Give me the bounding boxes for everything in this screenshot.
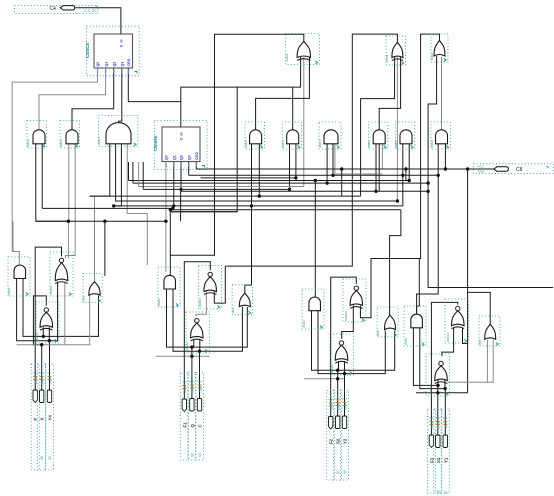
svg-text:XNOR2: XNOR2 <box>446 332 450 342</box>
wire g4 c4 inA gray <box>486 340 488 382</box>
selection box C1 <box>83 273 102 302</box>
wire rail 128.5 down <box>128 162 130 181</box>
wire g3 line370 <box>312 311 395 370</box>
selection box T3 <box>431 34 448 62</box>
wire M8 in b <box>381 144 383 169</box>
wire g1 b1 out to flag1 <box>35 247 61 389</box>
svg-text:S7: S7 <box>444 490 448 494</box>
and gate M8 <box>373 130 385 144</box>
wire U2 p2 down <box>173 162 175 206</box>
xnor gate B2 <box>208 272 212 276</box>
wire g2 b2 inR up <box>214 266 225 303</box>
svg-text:Q1: Q1 <box>104 62 108 67</box>
wire net C4 to U1 clock <box>76 8 121 34</box>
svg-text:OBUF: OBUF <box>183 385 187 393</box>
svg-text:OBUF: OBUF <box>444 421 448 429</box>
wire stub 405 <box>405 169 407 181</box>
svg-text:AND2: AND2 <box>244 140 248 148</box>
svg-text:S3: S3 <box>198 453 202 457</box>
wire g3 b3 out to flag1 <box>331 277 357 416</box>
svg-text:OR2: OR2 <box>376 330 380 336</box>
svg-text:Q0: Q0 <box>96 62 100 67</box>
svg-text:S0: S0 <box>40 456 44 460</box>
wire bus L3 y178 <box>201 177 296 179</box>
svg-text:XOR2: XOR2 <box>385 54 389 63</box>
wire g3 d3 in a <box>338 361 340 370</box>
wire g2 flag3 wire <box>199 351 201 399</box>
wire g3 line373 <box>318 311 385 374</box>
output terminal G2.2 <box>197 399 201 412</box>
svg-text:CEO: CEO <box>195 152 199 160</box>
wire M3 in 4 <box>127 144 147 214</box>
wire bus L12 y208 <box>42 207 173 209</box>
svg-text:Q3: Q3 <box>187 155 191 160</box>
wire M9 in b <box>408 144 410 181</box>
wire T2 input a <box>361 57 395 196</box>
wire g1 d1 out <box>33 296 46 345</box>
wire M6 in b <box>295 144 297 178</box>
output terminal G3.1 <box>336 416 340 429</box>
xnor gate B1 <box>59 258 63 262</box>
wire bus L13 y209 <box>170 209 401 211</box>
or gate T3 <box>434 41 445 57</box>
svg-text:S2: S2 <box>190 453 194 457</box>
wire bus L8 y191 <box>181 190 429 192</box>
junction dots <box>67 220 70 223</box>
selection box input C4 <box>15 6 99 14</box>
or gate C2 <box>239 293 250 307</box>
corner mark U1 <box>135 72 138 74</box>
svg-text:Q1: Q1 <box>173 155 177 160</box>
svg-text:C: C <box>198 424 203 428</box>
svg-text:OBUF: OBUF <box>337 402 341 410</box>
wire g4 b4 inL from D4 <box>442 328 454 356</box>
selection box T2 <box>386 36 406 65</box>
wire T3 input b to M10 <box>441 57 443 130</box>
and gate M1 <box>33 130 45 144</box>
wire g4 d4 in a <box>437 374 439 385</box>
or gate C1 <box>89 282 100 296</box>
xnor gate D4 <box>439 361 443 365</box>
wire M10 in a <box>437 144 439 176</box>
wire U2 p1 down <box>165 162 167 273</box>
selection box D2 <box>186 312 210 353</box>
wire g3 flag3 wire <box>344 374 346 417</box>
selection box B2 <box>199 266 222 310</box>
xnor gate D1 <box>44 308 48 312</box>
counter U1 CB4CE <box>94 34 133 68</box>
svg-text:Q2: Q2 <box>112 62 116 67</box>
svg-text:XNOR2: XNOR2 <box>35 332 39 342</box>
wire T2 input mid <box>396 57 398 201</box>
svg-text:Y4: Y4 <box>48 415 53 421</box>
corner mark U2 <box>202 166 205 168</box>
wire net U1-CEO to U2 clock <box>128 68 181 127</box>
svg-text:OBUF: OBUF <box>191 385 195 393</box>
selection column G2.0 <box>180 373 188 460</box>
wire g4 a4 out <box>417 175 439 314</box>
wire g3 d3 in b <box>344 361 346 374</box>
and gate A1 <box>14 265 25 278</box>
wire bus L10 y201 <box>126 200 398 202</box>
wire g1 a1 ins <box>17 279 58 341</box>
wire net T3 cont to A4 <box>417 306 420 314</box>
wire g1 d1 in a <box>42 327 44 336</box>
wire g3 b3 inR from T3 <box>360 259 419 318</box>
svg-text:OBUF: OBUF <box>41 376 45 384</box>
wire bus L9 y196 <box>90 195 361 197</box>
wire M1 in b <box>41 144 43 209</box>
output terminal G3.2 <box>342 416 346 429</box>
wire drop 13 gray <box>12 221 14 251</box>
selection box U2 <box>154 121 207 170</box>
xor gate T1 <box>297 42 310 58</box>
wire net T2 out left-down <box>225 34 397 266</box>
wire M5 in a <box>251 144 253 206</box>
selection box B3 <box>343 279 366 322</box>
wire g2 flag2 wire <box>191 347 193 399</box>
svg-text:Y1: Y1 <box>443 457 448 463</box>
wire net U1-Q1 to AND M1 <box>39 68 106 130</box>
selection box D3 <box>330 334 354 375</box>
wire g4 c4 branch <box>468 292 491 324</box>
wire M2 in b <box>66 144 76 259</box>
svg-text:AND2: AND2 <box>157 298 161 306</box>
wire g2 line347 <box>167 289 248 347</box>
svg-text:X1: X1 <box>436 457 441 463</box>
wire rail 132.9 down <box>132 162 134 183</box>
selection column G3.2 <box>341 390 349 480</box>
wire drop 104.9 <box>104 221 106 276</box>
svg-text:OR2: OR2 <box>82 295 86 301</box>
corner mark C4box <box>96 6 98 8</box>
svg-text:VCC: VCC <box>478 165 485 169</box>
xnor gate D3 <box>339 341 343 345</box>
wire g2 b2 out to flag1 <box>184 262 210 399</box>
wire g1 d1 in b <box>48 327 50 341</box>
wire M3 in 3 <box>114 144 122 206</box>
svg-text:CB4CE: CB4CE <box>85 42 90 58</box>
corner mark C8box <box>547 166 549 168</box>
svg-text:AND2: AND2 <box>430 140 434 148</box>
svg-text:CEO: CEO <box>127 59 131 67</box>
wire g2 line351 <box>173 289 242 351</box>
svg-text:OBUF: OBUF <box>437 421 441 429</box>
selection box A3 <box>302 289 324 329</box>
svg-text:AND2: AND2 <box>302 320 306 328</box>
wire g2 a2 out up <box>169 212 171 276</box>
wire M7 in c <box>334 144 336 174</box>
selection box output C8 <box>474 164 554 174</box>
wire g4 b4 inR <box>463 328 468 344</box>
wire bus L11 y205 <box>114 205 403 207</box>
svg-text:AND2: AND2 <box>26 139 30 147</box>
wire net U1-Q3 to AND M3 <box>119 68 122 123</box>
wire T2 input b <box>379 57 400 191</box>
output port C8 <box>494 167 509 171</box>
svg-text:XNOR2: XNOR2 <box>185 342 189 352</box>
and gate M6 <box>287 130 299 144</box>
wire bus L3b y174 <box>335 173 383 175</box>
selection box A1 <box>8 257 30 296</box>
wire g1 b1 inR <box>64 282 66 345</box>
wire g2 line356 gray <box>156 355 210 357</box>
svg-text:S1: S1 <box>48 456 52 460</box>
and gate M9 <box>400 130 412 144</box>
selection box M1 <box>27 121 46 148</box>
svg-text:AND3: AND3 <box>318 140 322 148</box>
wire g3 flag2 wire <box>337 370 339 416</box>
input port C4 <box>60 6 75 10</box>
selection column G3.1 <box>334 390 342 480</box>
svg-text:XNOR2: XNOR2 <box>198 298 202 308</box>
wire rail 143.2 down <box>142 162 144 189</box>
output terminal G3.0 <box>329 417 333 430</box>
wire net T3 out left-down <box>419 34 439 306</box>
svg-text:OBUF: OBUF <box>198 385 202 393</box>
and gate A4 <box>411 314 423 328</box>
and gate M3 <box>106 123 131 144</box>
selection box D1 <box>36 302 59 343</box>
wire T3 input a <box>428 56 553 288</box>
and gate M7 <box>324 130 338 144</box>
selection box M8 <box>368 122 387 149</box>
wire g4 rail 467 low <box>467 344 469 393</box>
selection box D4 <box>426 354 450 396</box>
wire g3 c3 feed <box>390 210 401 316</box>
wire g4 line393 <box>416 392 468 394</box>
wire branch at 237 down <box>170 87 237 212</box>
wire stub 341 <box>341 169 343 197</box>
selection column G4.1 <box>434 409 442 493</box>
wire g1 flag2 wire <box>41 345 43 390</box>
or gate T2 <box>392 42 403 57</box>
wire g4 c4 feed <box>467 169 469 344</box>
svg-text:S4: S4 <box>336 470 340 474</box>
svg-text:UP: UP <box>120 39 124 43</box>
wire U2 p3 down <box>180 162 182 190</box>
svg-text:AND2: AND2 <box>281 140 285 148</box>
wire g4 b4 out to flag1 <box>431 302 457 434</box>
svg-text:OBUF: OBUF <box>330 403 334 411</box>
selection box C2 <box>232 285 253 315</box>
wire rail 138.6 down <box>138 162 140 187</box>
svg-text:S2: S2 <box>336 438 341 444</box>
wire bus L1 y169 to flag <box>196 168 494 170</box>
wire drop 68.4 <box>67 221 69 258</box>
wire g4 flag2 wire <box>437 385 439 434</box>
svg-text:X: X <box>40 418 45 421</box>
wire net T1 out left-down <box>170 34 303 255</box>
svg-text:AND2: AND2 <box>404 337 408 345</box>
selection column G1.1 <box>38 364 46 470</box>
svg-text:OBUF: OBUF <box>430 421 434 429</box>
wire g3 a3 rail up <box>314 181 316 298</box>
selection column G1.0 <box>31 364 39 470</box>
svg-text:XOR2: XOR2 <box>285 53 289 62</box>
wire M2 in a <box>68 144 70 221</box>
svg-text:OBUF: OBUF <box>48 376 52 384</box>
wire bus L16 y221 <box>36 220 166 222</box>
svg-text:Q0: Q0 <box>165 155 169 160</box>
svg-text:S6: S6 <box>436 490 440 494</box>
selection box M3 <box>98 116 137 147</box>
wire bus L14 y211 <box>170 211 237 213</box>
selection box M6 <box>282 122 301 149</box>
wire U2 p5 down right <box>195 162 197 170</box>
selection column G4.2 <box>441 409 449 493</box>
wire g2 b2 inL from D2 <box>196 292 206 317</box>
svg-text:Q2: Q2 <box>180 155 184 160</box>
wire bus L4 y180 <box>129 180 410 182</box>
svg-text:XNOR2: XNOR2 <box>344 311 348 321</box>
wire M3 in 2 <box>116 144 126 201</box>
svg-text:CB4RE: CB4RE <box>153 135 158 151</box>
svg-text:OR2: OR2 <box>478 339 482 345</box>
svg-text:XNOR2: XNOR2 <box>330 364 334 374</box>
svg-text:XNOR2: XNOR2 <box>49 285 53 295</box>
svg-text:FRQ: FRQ <box>478 169 485 173</box>
selection box U1 <box>87 26 140 76</box>
svg-text:S5: S5 <box>343 470 347 474</box>
wire M3 in 1 <box>90 144 110 196</box>
svg-text:AND2: AND2 <box>367 140 371 148</box>
xnor gate B3 <box>354 286 358 290</box>
wire g4 horiz 382 gray <box>448 340 494 382</box>
svg-text:Q3: Q3 <box>121 62 125 67</box>
wire rail 89.5 C1 out <box>90 196 95 282</box>
svg-text:AND2: AND2 <box>394 140 398 148</box>
wire bus L6 y186 <box>139 186 304 188</box>
wire bus L2 y175 <box>189 174 439 176</box>
wire g1 horiz 344 gray <box>17 296 90 345</box>
selection column G3.0 <box>327 391 335 481</box>
selection box M10 <box>431 122 450 149</box>
wire M7 in a <box>326 144 328 183</box>
wire rail 180.6 down <box>180 191 182 221</box>
svg-text:UP: UP <box>180 132 184 136</box>
wire net U1-Q2 to AND M2 <box>72 68 114 130</box>
xnor gate D2 <box>195 319 199 323</box>
and gate M2 <box>66 130 78 144</box>
and gate A3 <box>309 297 321 311</box>
wire net U2 top to XOR T1 <box>181 57 301 102</box>
svg-text:C8: C8 <box>516 167 523 173</box>
wire g2 d2 in a <box>193 340 195 347</box>
output terminal G1.1 <box>40 390 44 403</box>
U1 pin numbers <box>97 70 99 74</box>
counter U2 CB4RE <box>162 127 200 162</box>
output terminal G2.0 <box>182 399 186 412</box>
or gate C3 <box>385 315 396 330</box>
wire M1 in a <box>36 144 69 221</box>
xnor gate B4 <box>456 306 460 310</box>
output terminal G4.0 <box>429 435 433 448</box>
wire g1 a1 in2 <box>23 279 99 337</box>
and gate M5 <box>250 130 262 144</box>
svg-text:AND2: AND2 <box>59 139 63 147</box>
output terminal G4.2 <box>443 435 447 448</box>
wire M6 AND out up <box>292 87 294 130</box>
wire g4 line385 <box>413 327 438 385</box>
wire g3 line378 gray <box>304 378 345 380</box>
selection box A4 <box>404 306 426 346</box>
selection box C4g <box>479 316 500 346</box>
svg-text:F1: F1 <box>182 422 187 428</box>
selection column G2.1 <box>188 373 196 461</box>
svg-text:Y2: Y2 <box>343 438 348 444</box>
wire g4 flag3 wire <box>444 389 446 435</box>
wire M6 in a <box>289 144 291 190</box>
output terminal G1.0 <box>33 390 37 403</box>
wire M9 in a <box>402 144 404 206</box>
selection box C3 <box>377 307 398 337</box>
output terminal G2.1 <box>190 399 194 412</box>
selection box T1 <box>286 34 320 65</box>
svg-text:OBUF: OBUF <box>343 402 347 410</box>
wire g1 flag3 wire <box>49 341 51 390</box>
wire U2 p4 down <box>188 162 190 176</box>
selection box M2 <box>60 121 79 148</box>
wire g4 line388 <box>420 327 445 389</box>
selection column G4.0 <box>427 409 435 493</box>
wire g2 c2 feed <box>245 206 252 294</box>
selection box A2 <box>158 267 180 307</box>
svg-text:F2: F2 <box>329 438 334 444</box>
svg-text:Q: Q <box>190 424 195 428</box>
output terminal G4.1 <box>436 435 440 448</box>
and gate A2 <box>164 275 176 289</box>
wire g2 d2 in b <box>199 340 201 352</box>
selection box B4 <box>445 299 469 343</box>
selection column G2.2 <box>196 373 204 461</box>
selection box B1 <box>50 252 73 296</box>
selection box M5 <box>245 122 264 149</box>
U2 pin numbers <box>165 163 167 167</box>
selection box M7 <box>319 122 341 149</box>
svg-text:OR2: OR2 <box>231 307 235 313</box>
wire bus L7 y189 <box>143 188 289 190</box>
selection column G1.2 <box>46 364 54 470</box>
wire g4 d4 in b <box>444 374 446 389</box>
wire g3 b3 inL from D3 <box>342 305 354 339</box>
svg-text:XNOR2: XNOR2 <box>429 385 433 395</box>
svg-text:OR2: OR2 <box>430 54 434 61</box>
wire net U1-Q0 left rail <box>12 68 97 265</box>
wire M7 in b <box>332 144 334 176</box>
wire T1 input mid <box>303 57 305 187</box>
wire rail 147 <box>146 214 148 266</box>
wire M5 in b <box>258 144 260 196</box>
wire bus L5 y183 <box>133 182 428 184</box>
wire M10 in b <box>444 144 446 169</box>
or gate C4g <box>485 324 496 339</box>
wire M5 AND out to T1 b <box>256 57 310 130</box>
output terminal G1.2 <box>47 390 51 403</box>
svg-text:AND4: AND4 <box>97 137 101 145</box>
svg-text:C4: C4 <box>50 6 57 12</box>
and gate M10 <box>436 130 448 144</box>
selection box M9 <box>395 122 414 149</box>
svg-text:AND2: AND2 <box>7 287 11 295</box>
wire M8 in a <box>375 144 377 192</box>
wire bus L15 y213 <box>127 213 147 215</box>
